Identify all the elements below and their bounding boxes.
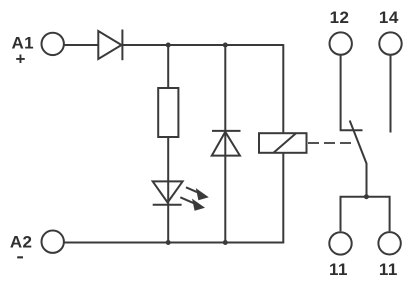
svg-text:A2: A2 xyxy=(10,233,32,252)
terminal 11 left xyxy=(329,232,351,254)
wire D2 branch xyxy=(224,45,226,243)
wire A1 to D1 xyxy=(64,44,99,46)
NC fixed contact xyxy=(340,129,363,131)
terminal 14 xyxy=(379,32,401,54)
svg-text:12: 12 xyxy=(330,8,350,27)
svg-text:11: 11 xyxy=(379,260,398,279)
actuator dashed link xyxy=(308,142,351,144)
label A2 - xyxy=(10,233,32,259)
junction node common xyxy=(364,194,369,199)
switch blade xyxy=(350,121,367,197)
junction node bottom-D2 xyxy=(223,240,228,245)
label A1 + xyxy=(12,33,34,68)
wire top rail down to coil xyxy=(282,44,284,133)
diode D1 xyxy=(98,30,122,61)
wire A2 rail xyxy=(64,242,284,244)
wire 12 to NC contact xyxy=(340,55,342,130)
LED light arrow 2 xyxy=(180,197,205,211)
LED D3 xyxy=(153,181,183,242)
relay coil K1 xyxy=(259,133,307,153)
wire resistor to LED xyxy=(167,137,169,181)
terminal A2 xyxy=(42,231,64,253)
wire resistor branch top xyxy=(167,45,169,88)
terminal 11 right xyxy=(378,232,400,254)
junction node top-D2 xyxy=(223,43,228,48)
resistor R1 xyxy=(158,88,178,137)
wire coil bottom xyxy=(282,153,284,244)
terminal 12 xyxy=(330,32,352,54)
junction node top-resistor xyxy=(166,43,171,48)
svg-text:+: + xyxy=(16,50,26,69)
junction node bottom-LED xyxy=(166,240,171,245)
svg-text:11: 11 xyxy=(329,260,348,279)
terminal A1 xyxy=(42,33,64,55)
LED light arrow 1 xyxy=(186,187,209,200)
diode D2 freewheeling xyxy=(212,131,241,156)
wire D1 to corner (top rail) xyxy=(122,44,283,46)
wire common to 11 terminals xyxy=(341,197,390,232)
svg-text:14: 14 xyxy=(379,8,399,27)
wire 14 NO contact xyxy=(390,55,392,132)
